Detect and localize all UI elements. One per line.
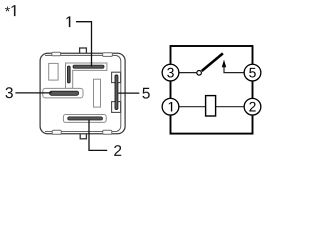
terminal 1 circle [162, 98, 179, 115]
pin 2 slot outline [63, 115, 106, 123]
coil rectangle [206, 96, 216, 116]
center slot cavity [94, 79, 101, 107]
pin 3 terminal bar [50, 91, 79, 95]
pin 5 lower socket square [112, 102, 121, 113]
leader line pin 1 [76, 22, 92, 67]
label 3 [5, 87, 12, 98]
switch blade [202, 53, 223, 71]
terminal 3 circle [162, 64, 179, 81]
switch contact circle [197, 71, 202, 76]
wire terminal 1 to coil [179, 106, 205, 108]
terminal 2 circle [244, 98, 261, 115]
top-left notch tab [52, 52, 61, 56]
relay bottom tab bump [80, 132, 86, 139]
bottom-right notch tab [103, 130, 112, 134]
leader line pin 3 [15, 92, 51, 94]
schematic box [171, 46, 253, 134]
switch arrow stem [224, 67, 244, 73]
keyway rectangle top-left cavity [49, 63, 58, 80]
L-shaped slot outline (pins 1 area) [66, 63, 107, 88]
pin 2 terminal bar [68, 117, 103, 120]
label 5 [142, 88, 149, 99]
relay top tab bump [80, 48, 87, 55]
pin 5 upper socket square [112, 72, 121, 82]
terminal 5 circle [244, 64, 261, 81]
wire terminal 3 to contact [179, 72, 196, 74]
pin 3 slot outline [43, 88, 83, 98]
leader line pin 2 [89, 120, 107, 151]
pin 1 terminal bar [73, 65, 104, 68]
label 2 [114, 145, 121, 156]
switch arrow head [222, 60, 226, 68]
wire coil to terminal 2 [216, 106, 245, 108]
vertical terminal bar in L slot [68, 66, 71, 83]
pin 5 terminal bar [115, 75, 118, 110]
label 1 [66, 16, 70, 27]
relay body outer outline [40, 53, 125, 134]
leader line pin 5 [118, 92, 139, 94]
top-right notch tab [103, 53, 113, 57]
bottom-left notch tab [52, 130, 61, 134]
note marker *1 [5, 5, 16, 16]
relay body inner contour [45, 55, 121, 131]
